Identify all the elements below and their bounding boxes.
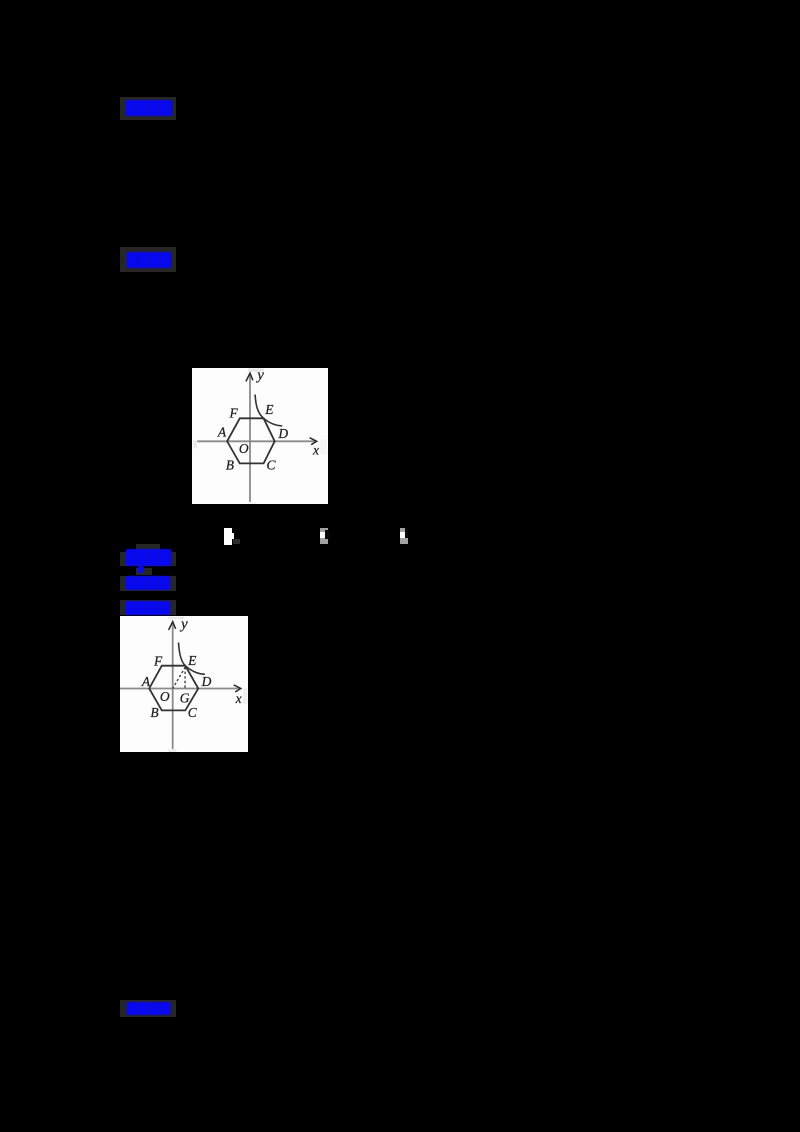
y-axis	[249, 374, 251, 502]
figure 2 hexagon diagram with G	[120, 616, 248, 752]
svg-text:y: y	[255, 368, 264, 383]
pale block right	[320, 439, 327, 454]
blue descender below label 3	[138, 566, 144, 573]
highlight box label 5	[120, 600, 176, 615]
svg-text:F: F	[153, 653, 163, 668]
svg-text:E: E	[187, 653, 197, 668]
dashed segment E to O	[172, 667, 185, 688]
svg-text:y: y	[179, 616, 188, 632]
blue label 1	[126, 100, 173, 116]
blue label 5	[126, 601, 171, 615]
pale handle top	[248, 368, 264, 371]
pale handle left	[193, 440, 197, 448]
svg-text:A: A	[141, 674, 151, 689]
x-axis	[197, 440, 315, 442]
hexagon ABCDEF	[149, 665, 198, 710]
blue label 3	[126, 549, 172, 566]
blue label 4	[126, 576, 171, 590]
highlight notch below label 3	[136, 568, 152, 575]
highlight box label 1	[120, 97, 176, 120]
svg-text:O: O	[160, 688, 170, 703]
dashed segment E to G	[184, 667, 186, 688]
option image A	[224, 528, 232, 545]
highlight box label 4	[120, 576, 176, 591]
blue label 6	[127, 1002, 171, 1016]
pale handle top	[168, 616, 184, 618]
svg-text:C: C	[266, 457, 276, 472]
pale handle bottom	[248, 502, 256, 504]
highlight box label 3	[120, 552, 176, 566]
hexagon ABCDEF	[227, 418, 275, 463]
svg-text:B: B	[226, 457, 234, 472]
svg-text:D: D	[277, 425, 288, 440]
y-axis arrowhead	[246, 373, 253, 381]
svg-text:B: B	[150, 705, 158, 720]
y-axis arrowhead	[168, 621, 175, 629]
x-axis	[120, 687, 239, 689]
highlight box label 2	[120, 247, 176, 272]
svg-text:x: x	[312, 442, 319, 457]
svg-text:D: D	[200, 674, 211, 689]
y-axis	[171, 622, 173, 749]
svg-text:C: C	[187, 705, 197, 720]
figure 1 hexagon coordinate diagram	[192, 368, 328, 505]
option image B	[320, 528, 328, 545]
svg-text:E: E	[264, 402, 274, 417]
highlight box label 6	[120, 1000, 175, 1017]
pale handle bottom	[168, 749, 176, 752]
option image C	[400, 528, 405, 532]
x-axis arrowhead	[309, 437, 316, 444]
highlight notch above label 3	[136, 544, 160, 552]
hyperbola curve	[178, 642, 204, 674]
svg-text:A: A	[217, 424, 227, 439]
blue label 2	[127, 252, 172, 268]
svg-text:G: G	[179, 690, 189, 705]
svg-text:x: x	[234, 690, 241, 705]
pale block right	[242, 688, 247, 703]
svg-text:F: F	[228, 405, 238, 420]
x-axis arrowhead	[233, 684, 240, 691]
hyperbola curve	[255, 394, 282, 425]
svg-text:O: O	[239, 440, 249, 455]
